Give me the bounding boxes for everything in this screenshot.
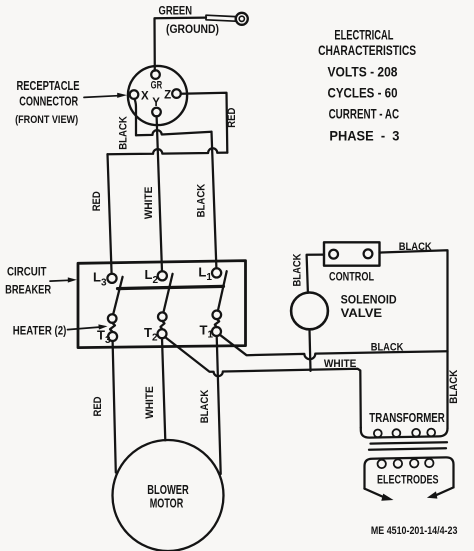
svg-text:CHARACTERISTICS: CHARACTERISTICS bbox=[318, 42, 416, 58]
svg-text:VALVE: VALVE bbox=[341, 306, 383, 320]
control terminal right bbox=[364, 249, 373, 258]
wire red horizontal with hops over black and white bbox=[108, 148, 228, 154]
wire black T1 to blower motor bbox=[217, 336, 221, 474]
breaker blade L1 bbox=[218, 271, 227, 311]
electrodes secondary winding bbox=[365, 457, 454, 488]
svg-text:BLACK: BLACK bbox=[196, 184, 208, 218]
contact circle above T3 bbox=[108, 314, 117, 323]
heater element T1 bbox=[215, 319, 219, 327]
control terminal left bbox=[329, 250, 338, 259]
svg-text:CONTROL: CONTROL bbox=[329, 270, 374, 284]
terminal T3 bbox=[108, 332, 117, 341]
terminal T2 bbox=[158, 329, 167, 338]
transformer primary winding bbox=[361, 428, 448, 438]
wire black vertical to L1 bbox=[212, 132, 217, 269]
wire black control left to solenoid bbox=[307, 255, 324, 293]
svg-text:VOLTS - 208: VOLTS - 208 bbox=[328, 63, 398, 79]
receptacle connector body bbox=[128, 66, 187, 125]
svg-text:ELECTRICAL: ELECTRICAL bbox=[334, 26, 393, 42]
leader arrow to heater bbox=[68, 327, 100, 330]
wire solenoid to white line bbox=[310, 330, 311, 371]
svg-text:SOLENOID: SOLENOID bbox=[341, 292, 397, 306]
svg-text:CONNECTOR: CONNECTOR bbox=[19, 93, 78, 108]
pin Y bbox=[152, 108, 161, 117]
circuit breaker box bbox=[78, 261, 246, 348]
wire white T2 to blower motor bbox=[162, 338, 165, 440]
wire red T3 to blower motor bbox=[113, 341, 116, 473]
svg-text:T1: T1 bbox=[200, 322, 214, 340]
terminal T1 bbox=[212, 327, 221, 336]
svg-text:BLACK: BLACK bbox=[199, 390, 211, 424]
wire white T2 branch diagonal to right bbox=[165, 337, 360, 427]
solenoid valve coil bbox=[291, 293, 328, 330]
svg-text:BLACK: BLACK bbox=[399, 241, 432, 253]
svg-text:ME 4510-201-14/4-23: ME 4510-201-14/4-23 bbox=[371, 525, 458, 537]
svg-text:CYCLES - 60: CYCLES - 60 bbox=[328, 84, 398, 100]
contact circle above T2 bbox=[158, 312, 167, 321]
transformer primary loops bbox=[374, 430, 382, 438]
breaker blade L3 bbox=[113, 277, 122, 314]
svg-text:MOTOR: MOTOR bbox=[150, 496, 184, 511]
svg-text:L3: L3 bbox=[93, 270, 107, 289]
pin Z bbox=[172, 89, 181, 98]
svg-text:PHASE - 3: PHASE - 3 bbox=[329, 128, 399, 144]
pin GR bbox=[151, 70, 160, 79]
ground lug blade bbox=[206, 15, 236, 21]
svg-text:L1: L1 bbox=[198, 265, 212, 284]
wire red vertical to L3 bbox=[108, 154, 112, 274]
control box bbox=[324, 242, 380, 265]
wire green ground vertical+horizontal bbox=[155, 18, 207, 71]
wire black horizontal with hop over white bbox=[136, 130, 212, 135]
svg-text:WHITE: WHITE bbox=[144, 386, 156, 419]
ground lug ring terminal bbox=[236, 13, 248, 25]
terminal L2 bbox=[158, 271, 167, 280]
svg-text:BLACK: BLACK bbox=[292, 253, 304, 286]
svg-text:CURRENT - AC: CURRENT - AC bbox=[329, 106, 400, 122]
electrodes loops bbox=[378, 460, 386, 468]
svg-text:Z: Z bbox=[164, 90, 171, 102]
svg-text:(GROUND): (GROUND) bbox=[166, 24, 219, 36]
wire white Y pin to L2 bbox=[157, 116, 162, 271]
svg-text:T2: T2 bbox=[144, 325, 158, 343]
wire black X pin to horizontal bbox=[135, 99, 137, 135]
svg-text:(FRONT VIEW): (FRONT VIEW) bbox=[15, 114, 78, 126]
contact circle above T1 bbox=[213, 311, 222, 320]
breaker tie bar bbox=[118, 286, 224, 288]
breaker blade L2 bbox=[163, 274, 172, 313]
svg-text:RECEPTACLE: RECEPTACLE bbox=[17, 78, 80, 93]
svg-text:T3: T3 bbox=[97, 328, 111, 346]
svg-text:BLACK: BLACK bbox=[448, 370, 460, 404]
svg-text:GREEN: GREEN bbox=[159, 5, 193, 17]
svg-text:WHITE: WHITE bbox=[143, 187, 155, 220]
svg-text:TRANSFORMER: TRANSFORMER bbox=[369, 411, 445, 425]
svg-text:ELECTRODES: ELECTRODES bbox=[377, 473, 439, 487]
electrode lead right with arrow bbox=[436, 487, 454, 495]
heater element T3 bbox=[110, 323, 115, 332]
heater element T2 bbox=[161, 321, 165, 329]
svg-text:L2: L2 bbox=[145, 267, 159, 286]
svg-text:RED: RED bbox=[226, 108, 238, 128]
svg-text:RED: RED bbox=[91, 191, 103, 211]
transformer core bbox=[371, 442, 448, 443]
terminal L1 bbox=[212, 268, 221, 277]
electrode lead left with arrow bbox=[365, 489, 386, 498]
svg-text:WHITE: WHITE bbox=[324, 358, 357, 370]
wire black control right to right rail bbox=[380, 250, 448, 428]
svg-text:BLACK: BLACK bbox=[371, 342, 404, 354]
svg-text:GR: GR bbox=[151, 79, 163, 91]
svg-text:X: X bbox=[141, 91, 149, 103]
svg-text:CIRCUIT: CIRCUIT bbox=[7, 265, 47, 279]
leader arrow to circuit breaker bbox=[50, 279, 68, 282]
svg-text:Y: Y bbox=[152, 97, 160, 109]
leader arrow to receptacle connector bbox=[84, 96, 118, 98]
blower motor bbox=[113, 440, 224, 551]
pin X bbox=[130, 90, 139, 99]
svg-text:HEATER (2): HEATER (2) bbox=[13, 324, 67, 338]
wire red Z pin right and down bbox=[181, 93, 228, 153]
svg-text:BLACK: BLACK bbox=[118, 116, 130, 150]
svg-text:BREAKER: BREAKER bbox=[5, 283, 51, 297]
svg-text:RED: RED bbox=[92, 396, 104, 416]
terminal L3 bbox=[107, 274, 116, 283]
wire black T1 branch diagonal to right bbox=[220, 335, 448, 359]
